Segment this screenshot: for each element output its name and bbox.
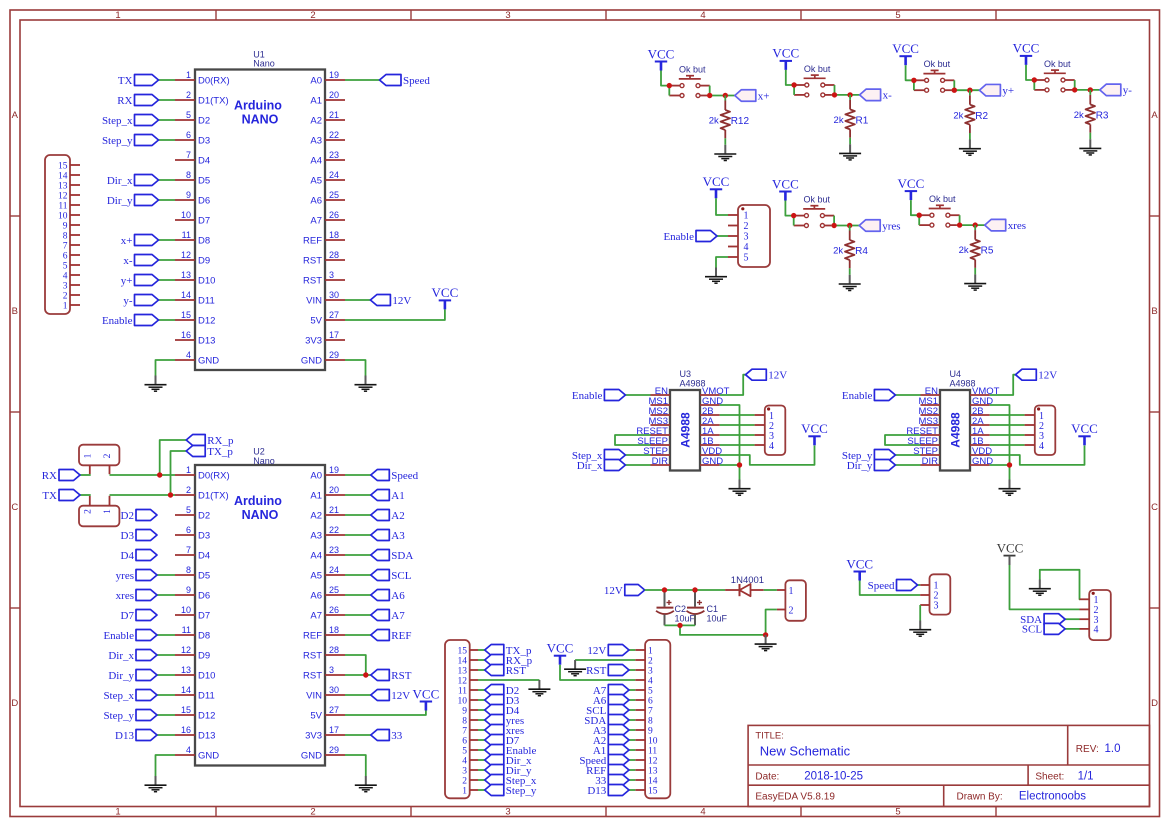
power flag VCC at U2 5V bbox=[413, 686, 440, 710]
svg-text:y-: y- bbox=[1123, 85, 1133, 97]
svg-text:2018-10-25: 2018-10-25 bbox=[804, 771, 863, 783]
svg-text:B: B bbox=[1151, 306, 1157, 317]
net flag Step_y to U1 bbox=[102, 135, 175, 147]
svg-text:13: 13 bbox=[181, 665, 191, 675]
svg-text:9: 9 bbox=[648, 726, 653, 736]
ground below U4 bbox=[999, 480, 1021, 496]
wire VCC to button R3 branch bbox=[1026, 65, 1034, 80]
svg-text:1: 1 bbox=[462, 786, 467, 796]
svg-text:24: 24 bbox=[329, 170, 339, 180]
svg-text:A: A bbox=[12, 110, 19, 121]
svg-text:R5: R5 bbox=[981, 246, 994, 257]
wire VCC to button R4 branch bbox=[785, 201, 793, 216]
svg-text:A4: A4 bbox=[310, 550, 322, 561]
svg-text:12V: 12V bbox=[391, 690, 410, 702]
svg-text:27: 27 bbox=[329, 310, 339, 320]
svg-text:Ok but: Ok but bbox=[1044, 59, 1071, 69]
svg-text:A6: A6 bbox=[310, 590, 322, 601]
net flag xres at P6 bbox=[478, 725, 524, 737]
svg-text:Dir_x: Dir_x bbox=[108, 650, 134, 662]
svg-text:5: 5 bbox=[648, 686, 653, 696]
ground at U1 pin4 bbox=[145, 376, 167, 392]
svg-text:5: 5 bbox=[895, 10, 900, 21]
net flag Step_x to U3 STEP bbox=[572, 450, 651, 462]
net flag RX to U1 bbox=[117, 95, 175, 107]
junction button out R2 bbox=[952, 88, 957, 93]
svg-text:yres: yres bbox=[116, 570, 134, 582]
title block bbox=[748, 725, 1149, 806]
svg-text:A4988: A4988 bbox=[949, 412, 963, 448]
svg-text:SDA: SDA bbox=[391, 550, 413, 562]
net flag Step_x at P6 bbox=[478, 775, 537, 787]
svg-text:13: 13 bbox=[181, 270, 191, 280]
junction RX_p / D0 bbox=[157, 472, 162, 477]
U4 pin MS1 bbox=[918, 396, 940, 407]
svg-text:2: 2 bbox=[789, 606, 794, 617]
svg-text:11: 11 bbox=[458, 686, 467, 696]
svg-text:Nano: Nano bbox=[253, 456, 275, 466]
junction caps bottom bbox=[677, 623, 682, 628]
U3 pin 2A bbox=[700, 416, 720, 427]
svg-text:Speed: Speed bbox=[391, 470, 418, 482]
svg-text:26: 26 bbox=[329, 210, 339, 220]
svg-text:2: 2 bbox=[310, 10, 315, 21]
U3 pin RESET bbox=[636, 426, 670, 437]
svg-text:RST: RST bbox=[586, 665, 606, 677]
svg-text:11: 11 bbox=[182, 230, 191, 240]
net flag D13 at P7 bbox=[587, 785, 635, 797]
svg-text:A1: A1 bbox=[310, 95, 322, 106]
svg-text:16: 16 bbox=[181, 330, 191, 340]
svg-text:GND: GND bbox=[301, 750, 322, 761]
svg-text:2: 2 bbox=[744, 221, 749, 232]
svg-text:DIR: DIR bbox=[922, 456, 939, 467]
svg-text:5V: 5V bbox=[310, 315, 322, 326]
U3 pin MS3 bbox=[648, 416, 670, 427]
svg-text:3: 3 bbox=[505, 10, 510, 21]
junction at VCC side of R12 bbox=[667, 83, 672, 88]
junction at VCC side of R2 bbox=[911, 78, 916, 83]
svg-text:3: 3 bbox=[505, 807, 510, 818]
U2 pin 16 D13 bbox=[175, 725, 215, 741]
svg-text:18: 18 bbox=[329, 230, 339, 240]
U2 pin 23 A4 bbox=[310, 545, 345, 561]
svg-text:5: 5 bbox=[186, 505, 191, 515]
wire U1 5V to VCC bbox=[345, 310, 445, 321]
svg-text:1: 1 bbox=[186, 465, 191, 475]
wire U3 out 2B to connector bbox=[720, 414, 755, 416]
net flag TX_p bbox=[171, 446, 234, 496]
net flag Speed to P4 pin1 bbox=[868, 580, 921, 592]
svg-text:VCC: VCC bbox=[772, 176, 799, 191]
svg-text:27: 27 bbox=[329, 705, 339, 715]
U2 pin 1 D0(RX) bbox=[175, 465, 230, 481]
U3 pin STEP bbox=[643, 446, 670, 457]
svg-text:VCC: VCC bbox=[1013, 41, 1040, 56]
net flag A1 at U2 bbox=[345, 490, 405, 502]
ground at U2 pin29 bbox=[355, 776, 377, 792]
junction U3 GND bbox=[737, 462, 742, 467]
ground below R5 bbox=[964, 274, 986, 290]
svg-text:15: 15 bbox=[648, 786, 658, 796]
ground at U2 pin4 bbox=[145, 776, 167, 792]
svg-text:2: 2 bbox=[648, 656, 653, 666]
wire U4 out 2B to connector bbox=[990, 414, 1025, 416]
wire U4 RESET-SLEEP link bbox=[885, 435, 921, 445]
net flag xres at U2 bbox=[116, 590, 175, 602]
U2 pin 22 A3 bbox=[310, 525, 345, 541]
svg-text:12: 12 bbox=[58, 191, 68, 201]
svg-text:x-: x- bbox=[883, 90, 893, 102]
U2 pin 10 D7 bbox=[175, 605, 210, 621]
svg-text:Enable: Enable bbox=[663, 231, 694, 243]
net flag Dir_x to U3 DIR bbox=[577, 460, 651, 472]
wire U4 out 1A to connector bbox=[990, 434, 1025, 436]
wire button to flag x- bbox=[832, 94, 860, 96]
wire button to flag y+ bbox=[952, 89, 980, 91]
U3 pin MS2 bbox=[648, 406, 670, 417]
svg-text:D: D bbox=[1151, 698, 1158, 709]
wire VCC to button R5 branch bbox=[911, 200, 919, 215]
svg-text:xres: xres bbox=[116, 590, 134, 602]
svg-text:8: 8 bbox=[63, 231, 68, 241]
wire U2 GND pin29 to ground bbox=[345, 755, 366, 776]
svg-text:D12: D12 bbox=[198, 315, 215, 326]
wire U4 out 2A to connector bbox=[990, 424, 1025, 426]
svg-text:D2: D2 bbox=[121, 510, 134, 522]
U4 pin RESET bbox=[906, 426, 940, 437]
net flag x+ bbox=[735, 90, 770, 103]
svg-text:D6: D6 bbox=[198, 590, 210, 601]
svg-text:25: 25 bbox=[329, 585, 339, 595]
svg-text:3: 3 bbox=[934, 601, 939, 612]
ground below R3 bbox=[1079, 139, 1101, 155]
svg-text:3: 3 bbox=[329, 665, 334, 675]
svg-text:C: C bbox=[11, 502, 18, 513]
wire resistor R5 to ground bbox=[974, 268, 976, 275]
net flag 12V at U3 VMOT bbox=[746, 369, 788, 381]
net flag Enable at P6 bbox=[478, 745, 536, 757]
junction TX_p / D1 bbox=[168, 492, 173, 497]
svg-text:2k: 2k bbox=[959, 245, 969, 256]
U4 pin MS3 bbox=[918, 416, 940, 427]
net flag Dir_y to U4 DIR bbox=[847, 460, 921, 472]
svg-text:13: 13 bbox=[458, 666, 468, 676]
junction button out R12 bbox=[707, 93, 712, 98]
svg-text:7: 7 bbox=[186, 545, 191, 555]
U2 pin 17 3V3 bbox=[305, 725, 345, 741]
svg-text:11: 11 bbox=[182, 625, 191, 635]
U1 pin 18 REF bbox=[303, 230, 345, 246]
net flag D7 at P6 bbox=[478, 735, 520, 747]
svg-text:9: 9 bbox=[63, 221, 68, 231]
wire VCC to P5 pin2 bbox=[1010, 565, 1080, 609]
junction at VCC side of R5 bbox=[917, 213, 922, 218]
pushbutton Ok but (R5 branch) bbox=[919, 194, 959, 227]
net flag xres bbox=[985, 219, 1026, 232]
U1 pin 19 A0 bbox=[310, 70, 345, 86]
net flag yres at U2 bbox=[116, 570, 175, 582]
svg-text:10: 10 bbox=[458, 696, 468, 706]
power flag VCC at U4 VDD bbox=[1071, 421, 1098, 445]
svg-text:A7: A7 bbox=[391, 610, 405, 622]
wire U3 GND to ground bbox=[720, 465, 740, 480]
wire resistor R2 to ground bbox=[969, 133, 971, 140]
U3 pin GND bbox=[700, 396, 723, 407]
power flag VCC at U3 VDD bbox=[801, 421, 828, 445]
wire U4 GND down bbox=[990, 405, 1010, 465]
svg-text:1: 1 bbox=[84, 453, 94, 458]
svg-text:5: 5 bbox=[186, 110, 191, 120]
junction button out R1 bbox=[832, 92, 837, 97]
resistor R2 2k bbox=[953, 90, 988, 133]
ground at P7 pin2 net bbox=[564, 660, 586, 676]
svg-text:D2: D2 bbox=[198, 115, 210, 126]
svg-text:9: 9 bbox=[186, 585, 191, 595]
net flag x+ to U1 bbox=[121, 235, 175, 247]
U2 pin 12 D9 bbox=[175, 645, 210, 661]
svg-text:D13: D13 bbox=[115, 730, 134, 742]
resistor R12 2k bbox=[709, 96, 750, 139]
svg-text:GND: GND bbox=[198, 750, 219, 761]
svg-text:1: 1 bbox=[186, 70, 191, 80]
svg-text:2k: 2k bbox=[709, 116, 719, 127]
svg-text:2: 2 bbox=[310, 807, 315, 818]
svg-text:29: 29 bbox=[329, 745, 339, 755]
U3 pin SLEEP bbox=[637, 436, 670, 447]
svg-text:A4: A4 bbox=[310, 155, 322, 166]
U2 pin 6 D3 bbox=[175, 525, 210, 541]
svg-text:VCC: VCC bbox=[703, 174, 730, 189]
svg-text:RST: RST bbox=[391, 670, 411, 682]
U1 pin 17 3V3 bbox=[305, 330, 345, 346]
svg-text:Ok but: Ok but bbox=[679, 65, 706, 75]
svg-text:Step_y: Step_y bbox=[103, 710, 134, 722]
U4 pin MS2 bbox=[918, 406, 940, 417]
svg-text:D4: D4 bbox=[198, 550, 210, 561]
svg-text:24: 24 bbox=[329, 565, 339, 575]
U2 pin 14 D11 bbox=[175, 685, 215, 701]
svg-text:2: 2 bbox=[103, 453, 113, 458]
U2 pin 29 GND bbox=[301, 745, 345, 761]
svg-text:y+: y+ bbox=[1002, 85, 1014, 97]
ground below P4 bbox=[909, 621, 931, 637]
wire resistor R1 to ground bbox=[849, 138, 851, 145]
svg-text:Dir_y: Dir_y bbox=[107, 195, 133, 207]
net flag RX bbox=[42, 470, 91, 482]
svg-text:12V: 12V bbox=[587, 645, 606, 657]
svg-text:8: 8 bbox=[186, 565, 191, 575]
net flag 12V at P7 bbox=[587, 645, 635, 657]
svg-text:26: 26 bbox=[329, 605, 339, 615]
net flag D3 at U2 bbox=[121, 530, 157, 542]
U1 pin 13 D10 bbox=[175, 270, 215, 286]
svg-text:9: 9 bbox=[186, 190, 191, 200]
svg-text:GND: GND bbox=[198, 355, 219, 366]
ground below R1 bbox=[839, 144, 861, 160]
svg-text:8: 8 bbox=[186, 170, 191, 180]
net flag Dir_y at U2 bbox=[108, 670, 175, 682]
svg-text:2: 2 bbox=[462, 776, 467, 786]
wire VCC to P7 pin4 bbox=[560, 665, 635, 680]
svg-text:20: 20 bbox=[329, 90, 339, 100]
svg-text:x+: x+ bbox=[758, 90, 770, 102]
wire U1 GND pin4 to ground bbox=[156, 360, 176, 376]
U2 pin 2 D1(TX) bbox=[175, 485, 229, 501]
U3 pin MS1 bbox=[648, 396, 670, 407]
svg-text:VCC: VCC bbox=[846, 556, 873, 571]
wire VCC to P4 pin2 bbox=[860, 581, 921, 596]
svg-text:12V: 12V bbox=[1038, 370, 1057, 382]
svg-text:REF: REF bbox=[391, 630, 411, 642]
wire resistor R3 to ground bbox=[1089, 133, 1091, 140]
svg-text:4: 4 bbox=[186, 350, 191, 360]
svg-text:RX: RX bbox=[117, 95, 132, 107]
svg-text:Speed: Speed bbox=[403, 75, 430, 87]
wire U3 RESET-SLEEP link bbox=[615, 435, 651, 445]
svg-text:C1: C1 bbox=[707, 604, 719, 614]
U3 pin VMOT bbox=[700, 386, 730, 397]
svg-text:14: 14 bbox=[181, 290, 191, 300]
svg-text:28: 28 bbox=[329, 645, 339, 655]
U4 pin GND bbox=[970, 396, 993, 407]
net flag SCL to P5 pin4 bbox=[1022, 623, 1080, 635]
connector P5 4-pin bbox=[1080, 590, 1111, 640]
svg-text:21: 21 bbox=[329, 505, 339, 515]
net flag RX_p bbox=[160, 435, 234, 476]
wire button to flag y- bbox=[1072, 89, 1100, 91]
svg-text:y+: y+ bbox=[121, 275, 133, 287]
svg-text:VCC: VCC bbox=[898, 176, 925, 191]
U1 pin 11 D8 bbox=[175, 230, 210, 246]
svg-text:30: 30 bbox=[329, 290, 339, 300]
svg-text:VCC: VCC bbox=[547, 641, 574, 656]
net flag A7 at U2 bbox=[345, 610, 405, 622]
pushbutton Ok but (R1 branch) bbox=[794, 64, 834, 97]
U4 pin 1B bbox=[970, 436, 990, 447]
svg-text:D3: D3 bbox=[198, 530, 210, 541]
svg-text:Ok but: Ok but bbox=[924, 59, 951, 69]
U2 pin 9 D6 bbox=[175, 585, 210, 601]
svg-text:4: 4 bbox=[1039, 441, 1044, 452]
svg-text:D6: D6 bbox=[198, 195, 210, 206]
ground below R4 bbox=[839, 275, 861, 291]
power flag VCC at U1 5V bbox=[432, 285, 459, 309]
net flag D3 at P6 bbox=[478, 695, 520, 707]
svg-text:C: C bbox=[1151, 502, 1158, 513]
svg-text:VCC: VCC bbox=[997, 540, 1024, 555]
svg-text:7: 7 bbox=[186, 150, 191, 160]
U4 pin EN bbox=[921, 386, 941, 397]
svg-text:RX: RX bbox=[42, 470, 57, 482]
svg-text:7: 7 bbox=[63, 241, 68, 251]
svg-text:10uF: 10uF bbox=[675, 614, 696, 624]
net flag TX bbox=[42, 490, 90, 502]
svg-text:1: 1 bbox=[744, 211, 749, 222]
wire capacitor bottoms rail bbox=[665, 625, 766, 635]
net flag Speed at U1 A0 bbox=[345, 75, 430, 87]
svg-text:17: 17 bbox=[329, 725, 339, 735]
U2 pin 27 5V bbox=[310, 705, 345, 721]
svg-text:D7: D7 bbox=[198, 610, 210, 621]
net flag SCL at P7 bbox=[586, 705, 635, 717]
svg-text:A2: A2 bbox=[310, 510, 322, 521]
net flag D2 at P6 bbox=[478, 685, 519, 697]
svg-text:SCL: SCL bbox=[1022, 624, 1042, 636]
net flag 33 at P7 bbox=[595, 775, 635, 787]
net flag Dir_x to U1 bbox=[107, 175, 175, 187]
net flag 12V at U2 bbox=[345, 690, 410, 702]
svg-text:4: 4 bbox=[1094, 625, 1099, 636]
svg-text:A3: A3 bbox=[391, 530, 405, 542]
U2 pin 3 RST bbox=[303, 665, 345, 681]
svg-text:RST: RST bbox=[303, 670, 322, 681]
svg-text:14: 14 bbox=[58, 171, 68, 181]
U4 pin 2A bbox=[970, 416, 990, 427]
svg-text:A6: A6 bbox=[310, 195, 322, 206]
U2 pin 25 A6 bbox=[310, 585, 345, 601]
U2 pin 20 A1 bbox=[310, 485, 345, 501]
svg-text:Enable: Enable bbox=[842, 390, 873, 402]
svg-text:7: 7 bbox=[648, 706, 653, 716]
pushbutton Ok but (R2 branch) bbox=[914, 59, 954, 92]
svg-text:Arduino: Arduino bbox=[234, 99, 282, 113]
junction C1 top bbox=[692, 587, 697, 592]
svg-text:4: 4 bbox=[700, 807, 705, 818]
svg-text:3: 3 bbox=[63, 281, 68, 291]
svg-text:U3: U3 bbox=[680, 369, 692, 379]
svg-text:12: 12 bbox=[648, 756, 658, 766]
svg-text:D9: D9 bbox=[198, 650, 210, 661]
U1 pin 20 A1 bbox=[310, 90, 345, 106]
U2 pin 11 D8 bbox=[175, 625, 210, 641]
svg-text:VCC: VCC bbox=[648, 46, 675, 61]
U2 pin 8 D5 bbox=[175, 565, 210, 581]
svg-text:D5: D5 bbox=[198, 175, 210, 186]
net flag A2 at U2 bbox=[345, 510, 405, 522]
svg-text:A7: A7 bbox=[310, 610, 322, 621]
power flag VCC for R1 branch bbox=[772, 46, 799, 70]
op rect U1 body bbox=[195, 50, 325, 371]
resistor R5 2k bbox=[959, 225, 994, 268]
svg-text:12V: 12V bbox=[604, 585, 623, 597]
wire P2 pin5 to ground bbox=[716, 257, 728, 268]
svg-text:Speed: Speed bbox=[868, 580, 895, 592]
ground below R2 bbox=[959, 140, 981, 156]
svg-text:4: 4 bbox=[769, 441, 774, 452]
svg-text:5: 5 bbox=[462, 746, 467, 756]
svg-text:20: 20 bbox=[329, 485, 339, 495]
svg-text:VCC: VCC bbox=[772, 46, 799, 61]
svg-text:D9: D9 bbox=[198, 255, 210, 266]
U1 pin 30 VIN bbox=[306, 290, 345, 306]
net flag A3 at U2 bbox=[345, 530, 405, 542]
svg-text:13: 13 bbox=[58, 181, 68, 191]
U1 pin 9 D6 bbox=[175, 190, 210, 206]
U4 pin SLEEP bbox=[907, 436, 940, 447]
U3 pin VDD bbox=[700, 446, 722, 457]
svg-text:D7: D7 bbox=[198, 215, 210, 226]
connector P2 5-pin bbox=[728, 205, 770, 267]
net flag x- to U1 bbox=[123, 255, 175, 267]
svg-text:30: 30 bbox=[329, 685, 339, 695]
wire U2 5V to VCC bbox=[345, 711, 426, 716]
svg-text:4: 4 bbox=[648, 676, 653, 686]
svg-text:A6: A6 bbox=[391, 590, 405, 602]
power flag VCC for R2 branch bbox=[892, 41, 919, 65]
svg-text:21: 21 bbox=[329, 110, 339, 120]
wire VCC to button R1 branch bbox=[786, 70, 794, 85]
